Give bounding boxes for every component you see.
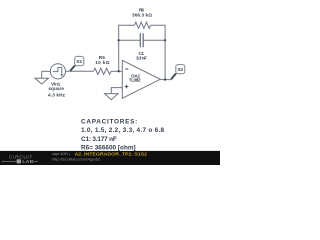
- svg-text:A2_INTEGRADOR_TP2_S1S2: A2_INTEGRADOR_TP2_S1S2: [75, 151, 148, 156]
- svg-text:capt 4/30 |: capt 4/30 |: [52, 152, 70, 156]
- svg-text:C1: 3.177 nF: C1: 3.177 nF: [81, 136, 117, 143]
- svg-text:S1: S1: [76, 59, 82, 65]
- svg-text:S2: S2: [177, 67, 183, 73]
- svg-text:square: square: [48, 86, 64, 91]
- svg-text:TL082: TL082: [129, 78, 141, 83]
- svg-text:10 kΩ: 10 kΩ: [95, 60, 110, 65]
- svg-text:366.3 kΩ: 366.3 kΩ: [132, 13, 152, 18]
- svg-text:3.3 nF: 3.3 nF: [136, 55, 147, 60]
- svg-text:http://circuitlab.com/c4gze52: http://circuitlab.com/c4gze52: [52, 158, 100, 162]
- svg-text:4.3 kHz: 4.3 kHz: [48, 92, 66, 97]
- svg-text:1.0, 1.5, 2.2, 3.3, 4.7 o 6.8: 1.0, 1.5, 2.2, 3.3, 4.7 o 6.8: [81, 127, 165, 134]
- svg-text:LAB: LAB: [22, 159, 33, 164]
- svg-text:CAPACITORES:: CAPACITORES:: [81, 118, 137, 125]
